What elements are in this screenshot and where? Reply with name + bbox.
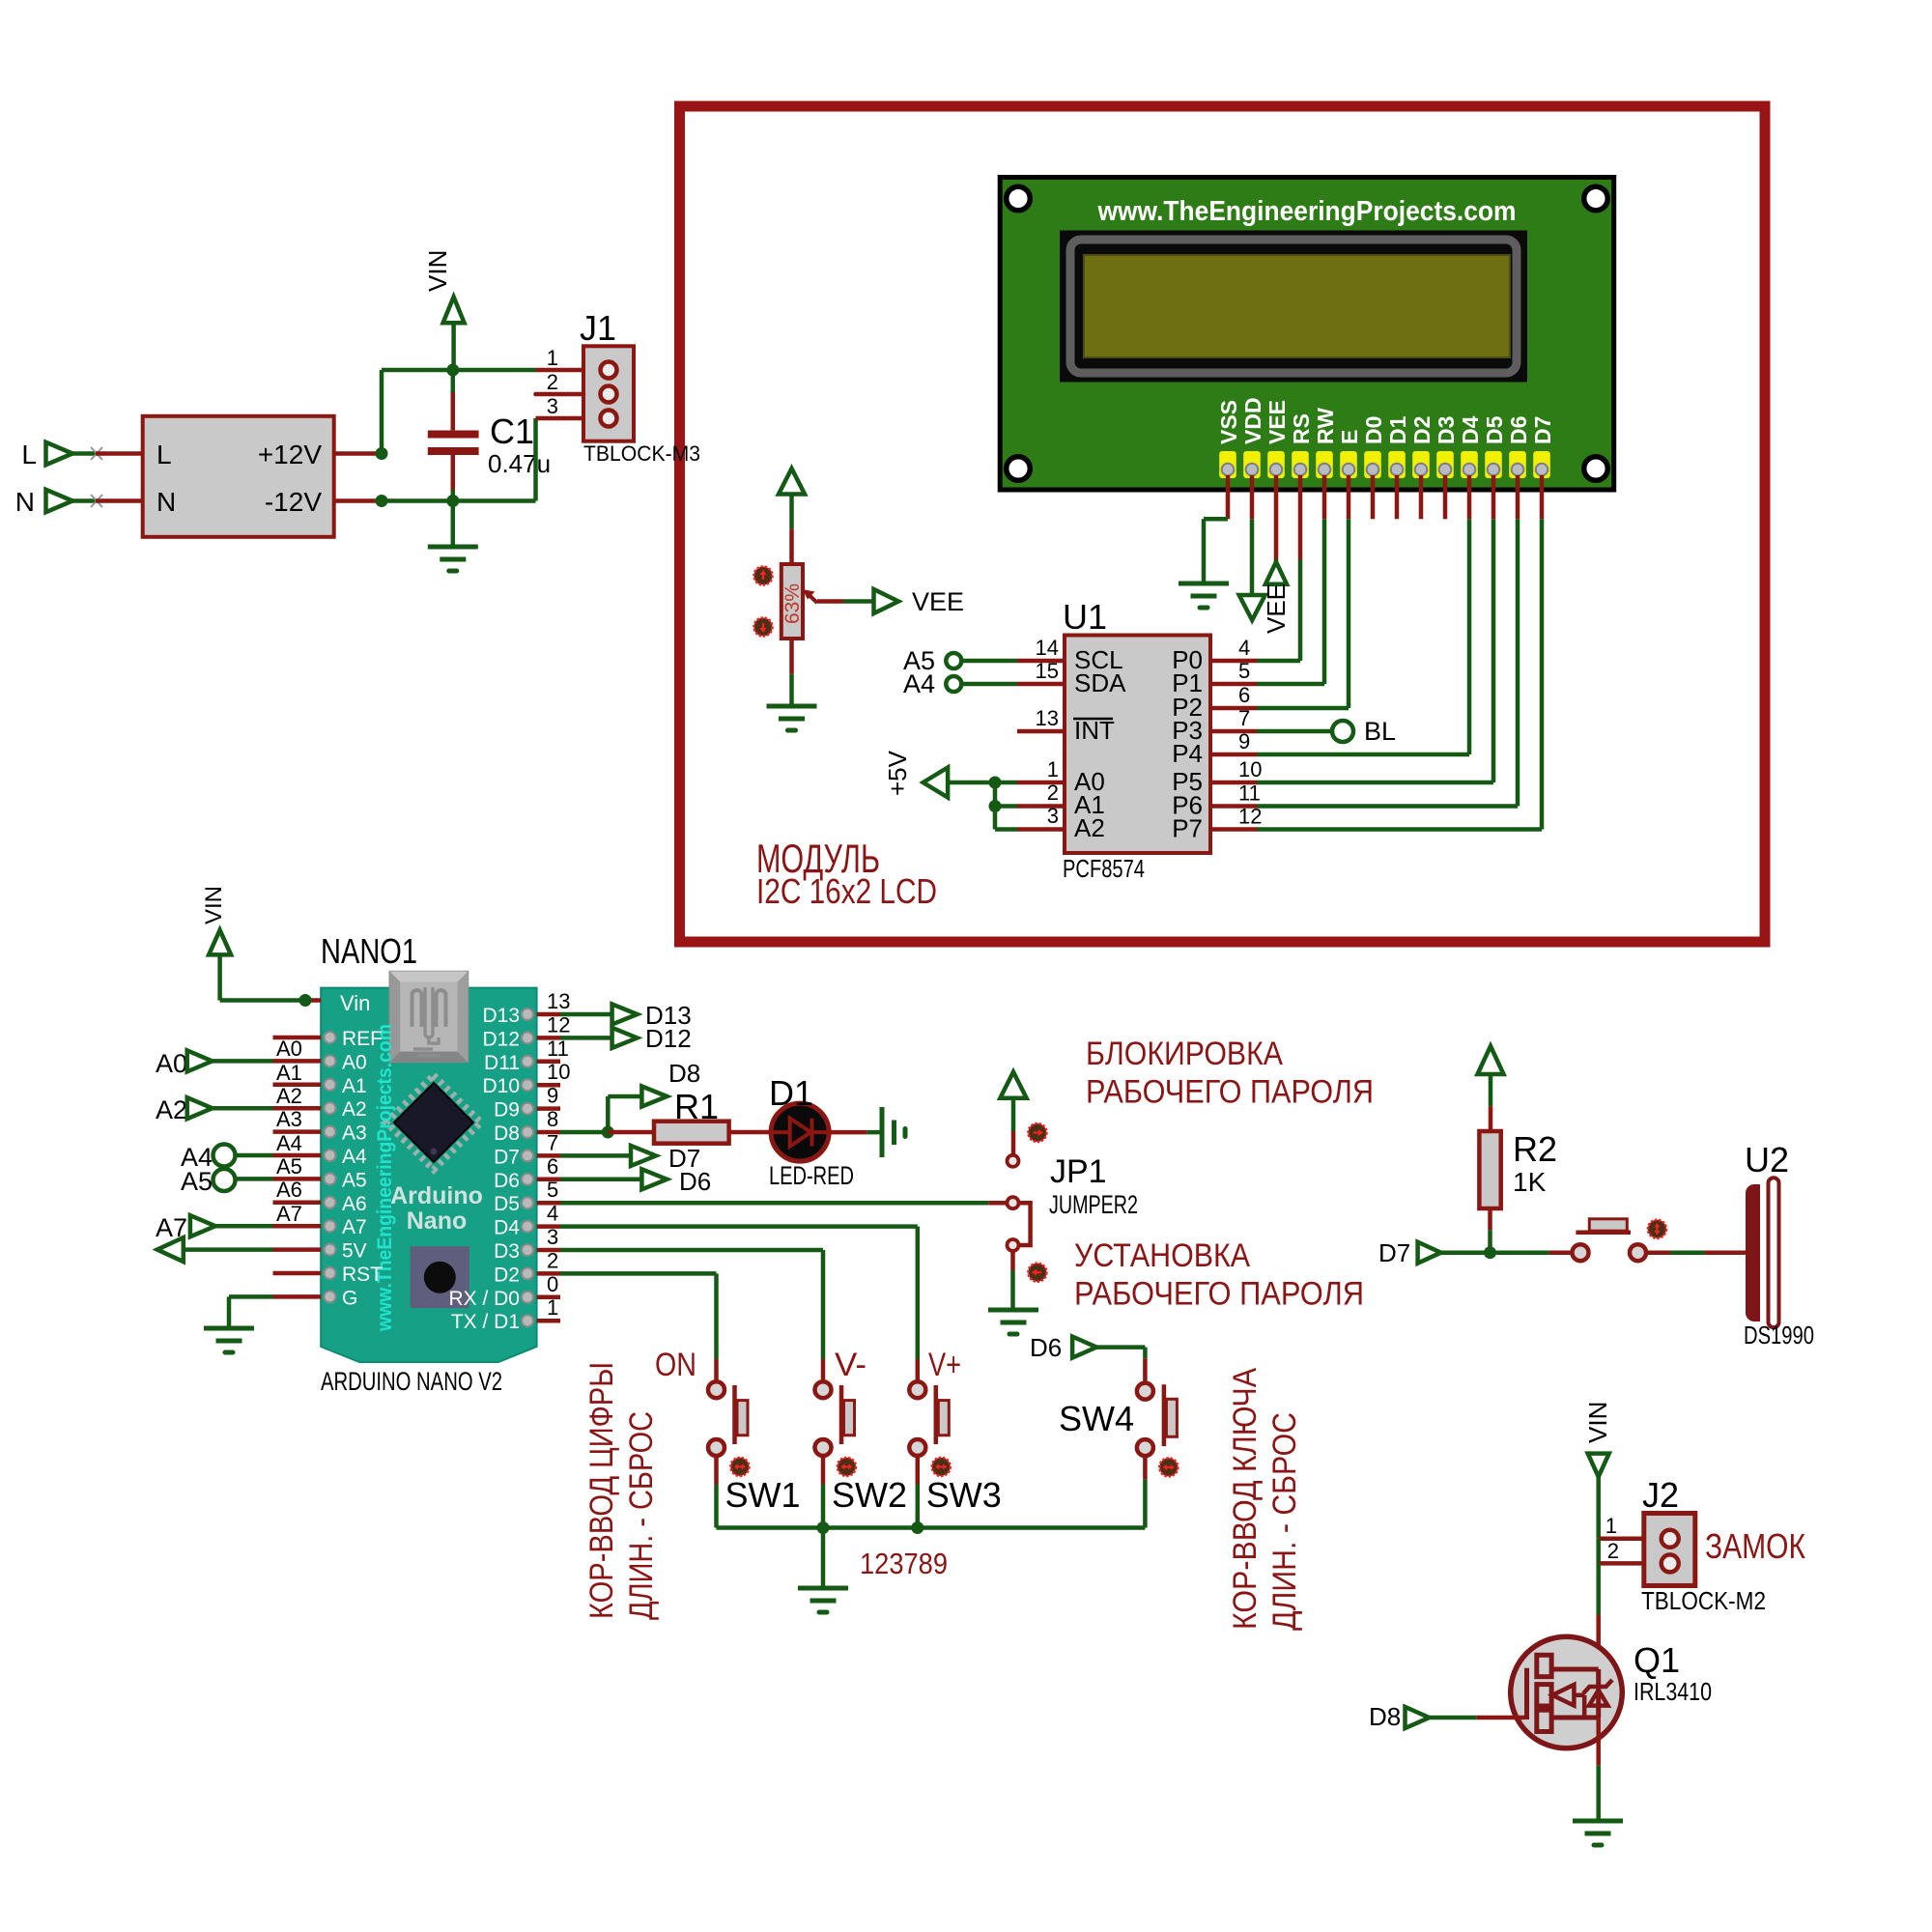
- svg-text:A5: A5: [276, 1154, 302, 1179]
- svg-text:1: 1: [547, 1295, 558, 1320]
- caption blocking line2: [1086, 1074, 1374, 1111]
- svg-text:D7: D7: [1530, 416, 1555, 444]
- LCD pad D1: [1388, 451, 1406, 478]
- svg-text:N: N: [15, 487, 35, 517]
- pot value 63%: [781, 583, 804, 624]
- svg-text:SW1: SW1: [725, 1475, 801, 1515]
- nano pin A3: [273, 1122, 367, 1145]
- svg-text:U2: U2: [1745, 1140, 1789, 1179]
- svg-text:J1: J1: [580, 308, 616, 348]
- ground pot: [767, 706, 817, 730]
- svg-text:Vin: Vin: [340, 991, 370, 1015]
- svg-text:JUMPER2: JUMPER2: [1049, 1190, 1138, 1219]
- terminal D6 key: [1030, 1333, 1096, 1362]
- Q1 label: [1634, 1640, 1680, 1680]
- svg-text:V-: V-: [835, 1347, 867, 1383]
- VEE label: [912, 587, 964, 616]
- switch SW1 interactive: [730, 1458, 749, 1476]
- wire P1 to RW: [1257, 682, 1324, 687]
- wire down to A2: [995, 807, 1017, 830]
- svg-text:5V: 5V: [342, 1240, 367, 1263]
- wire J2 to Q1 drain: [1596, 1563, 1601, 1669]
- svg-text:D2: D2: [1409, 416, 1435, 444]
- wire C1 to ground: [451, 501, 456, 548]
- svg-text:9: 9: [547, 1084, 558, 1108]
- svg-text:D4: D4: [1458, 415, 1483, 444]
- LCD pad VEE: [1267, 451, 1285, 478]
- svg-text:VEE: VEE: [1264, 400, 1290, 444]
- J1 type label TBLOCK-M3: [583, 441, 700, 466]
- svg-text:JP1: JP1: [1050, 1153, 1107, 1190]
- svg-text:A2: A2: [276, 1084, 302, 1108]
- switch SW3 label: [926, 1475, 1002, 1515]
- nano VIN power arrow: [201, 886, 305, 1001]
- node R2 D7: [1484, 1246, 1496, 1259]
- svg-text:www.TheEngineeringProjects.com: www.TheEngineeringProjects.com: [1097, 196, 1517, 227]
- LCD pad RW: [1316, 451, 1333, 478]
- svg-text:TBLOCK-M2: TBLOCK-M2: [1641, 1586, 1766, 1615]
- wire D2 to SW1: [560, 1273, 717, 1359]
- wire D2 stub: [1419, 475, 1424, 519]
- wire button to U2: [1646, 1250, 1747, 1255]
- terminal D7 key: [1378, 1238, 1441, 1267]
- wire D8 net: [560, 1130, 608, 1135]
- resistor R2: [1479, 1131, 1500, 1208]
- U1 pin INT 13: [1017, 706, 1115, 745]
- switch SW2 top pin: [815, 1359, 832, 1398]
- wire N green: [72, 498, 96, 503]
- terminal N: [15, 487, 35, 517]
- svg-text:ARDUINO NANO V2: ARDUINO NANO V2: [321, 1367, 502, 1396]
- svg-text:VDD: VDD: [1240, 397, 1265, 444]
- svg-text:RST: RST: [342, 1264, 383, 1286]
- DS1990 label: [1744, 1321, 1814, 1350]
- wire -12V green: [382, 498, 536, 503]
- wire D0 stub: [1371, 475, 1376, 519]
- U1 pin P3 7: [1172, 706, 1257, 745]
- VIN label: [423, 250, 452, 292]
- svg-text:SW3: SW3: [926, 1475, 1002, 1515]
- J1 pin numbers: [547, 346, 558, 418]
- wire D7 junction: [1441, 1250, 1549, 1255]
- resistor R1: [654, 1122, 729, 1144]
- isp header: [411, 1246, 469, 1308]
- wire RW drop: [1322, 475, 1327, 684]
- switch SW4 interactive: [1159, 1458, 1178, 1476]
- nano pin D4: [494, 1202, 560, 1239]
- svg-text:9: 9: [1238, 729, 1250, 753]
- svg-text:I2C 16x2 LCD: I2C 16x2 LCD: [756, 871, 937, 911]
- touch button actuator: [1576, 1219, 1631, 1233]
- wire to J2 pin2: [1599, 1539, 1662, 1564]
- svg-text:2: 2: [1607, 1539, 1619, 1563]
- svg-text:N: N: [156, 487, 176, 517]
- svg-text:VSS: VSS: [1216, 400, 1241, 444]
- svg-text:TX / D1: TX / D1: [451, 1311, 520, 1333]
- switch SW1 label: [725, 1475, 801, 1515]
- svg-text:1: 1: [1047, 757, 1059, 781]
- svg-text:D5: D5: [494, 1193, 520, 1215]
- svg-text:DS1990: DS1990: [1744, 1321, 1814, 1350]
- wire A5 to SCL: [961, 659, 1017, 664]
- svg-text:D3: D3: [494, 1240, 520, 1263]
- svg-text:A6: A6: [276, 1178, 302, 1202]
- wire to touch button: [1548, 1250, 1573, 1255]
- nano pin D6: [494, 1154, 560, 1192]
- nano pin A1: [273, 1075, 367, 1097]
- svg-text:NANO1: NANO1: [321, 931, 417, 971]
- wire R1 to D1: [729, 1130, 773, 1135]
- svg-text:УСТАНОВКА: УСТАНОВКА: [1074, 1237, 1250, 1274]
- wire G to ground: [229, 1296, 273, 1328]
- touch button left pin: [1573, 1244, 1589, 1261]
- atmega chip: [386, 1075, 481, 1170]
- C1 label: [488, 412, 551, 478]
- module border box: [680, 106, 1766, 942]
- R2 label: [1513, 1129, 1557, 1197]
- svg-text:U1: U1: [1063, 597, 1107, 637]
- wire +5V to A0: [948, 781, 1017, 785]
- node +12V: [376, 447, 388, 460]
- svg-text:5: 5: [547, 1178, 558, 1202]
- ground JP1: [988, 1310, 1038, 1334]
- svg-text:A5: A5: [342, 1169, 367, 1191]
- label V+: [928, 1347, 961, 1383]
- PCB title text: [1097, 196, 1517, 227]
- TBLOCK-M2 label: [1641, 1586, 1766, 1615]
- no-connect x N: [91, 495, 102, 507]
- svg-text:D5: D5: [1482, 415, 1507, 444]
- ARDUINO NANO V2 label: [321, 1367, 502, 1396]
- switch SW2 actuator: [841, 1385, 855, 1444]
- svg-text:ЗАМОК: ЗАМОК: [1705, 1526, 1805, 1566]
- J1 pin2 stub: [536, 392, 584, 397]
- LCD pad label VSS: [1216, 400, 1241, 444]
- terminal A0: [156, 1037, 302, 1078]
- connector J2: [1644, 1514, 1695, 1586]
- LCD pad E: [1340, 451, 1357, 478]
- pot wiper arrow: [803, 589, 818, 603]
- SW4 label: [1059, 1399, 1134, 1438]
- caption digits col2: [623, 1411, 660, 1620]
- jumper JP1 pin3: [1008, 1239, 1019, 1251]
- input arrow N: [46, 490, 73, 512]
- terminal D12: [560, 1024, 692, 1053]
- nano pin TX / D1: [451, 1295, 560, 1333]
- wire D4 to SW3: [560, 1227, 918, 1359]
- LCD pad VSS: [1219, 451, 1236, 478]
- wire node to J1 pin1: [453, 368, 583, 373]
- wire P2 to E: [1257, 706, 1349, 711]
- JUMPER2 label: [1049, 1190, 1138, 1219]
- svg-text:1: 1: [547, 346, 558, 370]
- node -12V a: [376, 495, 388, 507]
- wire D8 to R1: [608, 1130, 654, 1135]
- wire down to A1: [995, 782, 1017, 807]
- LCD pad D3: [1436, 451, 1454, 478]
- svg-text:D6: D6: [1030, 1333, 1062, 1362]
- node bus SW2: [817, 1521, 830, 1534]
- nano pin RX / D0: [448, 1272, 560, 1310]
- LCD pad D4: [1461, 451, 1478, 478]
- switch SW2 interactive: [838, 1458, 856, 1476]
- svg-text:VIN: VIN: [201, 886, 227, 924]
- svg-text:13: 13: [1036, 706, 1059, 730]
- wire pot bottom: [789, 639, 794, 706]
- svg-text:D7: D7: [1378, 1238, 1410, 1267]
- svg-text:7: 7: [1238, 706, 1250, 730]
- svg-text:RS: RS: [1289, 413, 1314, 444]
- svg-text:КОР-ВВОД КЛЮЧА: КОР-ВВОД КЛЮЧА: [1227, 1368, 1264, 1630]
- pot interactive up: [754, 567, 773, 585]
- PCB hole top-right: [1584, 186, 1608, 211]
- caption digits col1: [583, 1362, 620, 1619]
- terminal L: [21, 440, 37, 469]
- svg-text:A5: A5: [181, 1167, 213, 1196]
- wire switch bus: [717, 1525, 1146, 1530]
- svg-text:13: 13: [547, 989, 570, 1013]
- svg-text:VEE: VEE: [1262, 583, 1291, 634]
- svg-text:A2: A2: [342, 1098, 367, 1121]
- svg-text:P4: P4: [1172, 739, 1203, 768]
- +5V terminal arrow: [923, 768, 949, 798]
- wire to J1 pin3: [536, 418, 584, 501]
- node -12V b: [446, 495, 459, 507]
- LCD pad D7: [1533, 451, 1550, 478]
- branch to D8 terminal: [608, 1059, 700, 1132]
- usb connector: [389, 972, 468, 1063]
- svg-text:A2: A2: [1074, 813, 1105, 842]
- svg-text:L: L: [156, 440, 172, 469]
- LCD pad label D3: [1434, 416, 1459, 444]
- U1 pin P6 11: [1172, 781, 1261, 820]
- svg-text:4: 4: [547, 1202, 558, 1226]
- VIN power arrow: [443, 297, 465, 370]
- potentiometer RV 63%: [781, 564, 803, 639]
- svg-text:A2: A2: [156, 1095, 187, 1124]
- svg-text:3: 3: [547, 394, 558, 418]
- switch SW3 bottom pin: [909, 1439, 925, 1528]
- wire D6 to SW4: [1096, 1348, 1145, 1383]
- terminal A5 circle: [181, 1154, 302, 1196]
- svg-text:4: 4: [1238, 636, 1250, 660]
- module caption МОДУЛЬ: [756, 836, 880, 881]
- label ZAMOK: [1705, 1526, 1805, 1566]
- nano pin RST: [273, 1264, 384, 1286]
- svg-text:6: 6: [1238, 683, 1250, 707]
- svg-text:D3: D3: [1434, 416, 1459, 444]
- wire D1 to ground: [829, 1130, 882, 1135]
- svg-text:Q1: Q1: [1634, 1640, 1680, 1680]
- wire D3 stub: [1443, 475, 1448, 519]
- LCD pad label D1: [1385, 415, 1410, 444]
- no-connect x L: [91, 447, 102, 460]
- JP1 power arrow: [1000, 1072, 1026, 1131]
- wire VSS drop: [1204, 475, 1228, 583]
- svg-text:A1: A1: [276, 1061, 302, 1085]
- U1 pin P0 4: [1172, 636, 1257, 674]
- nano pin A4: [273, 1146, 368, 1168]
- wire to JP1 pin1: [1011, 1131, 1016, 1155]
- ground switches: [798, 1588, 848, 1612]
- PCB hole bottom-right: [1584, 457, 1608, 481]
- svg-text:BL: BL: [1364, 717, 1396, 746]
- R2 power arrow: [1478, 1046, 1504, 1131]
- svg-text:5: 5: [1238, 659, 1250, 683]
- PCB hole bottom-left: [1007, 457, 1031, 481]
- svg-text:ДЛИН. - СБРОС: ДЛИН. - СБРОС: [623, 1411, 660, 1620]
- node A0: [989, 777, 1002, 789]
- svg-text:РАБОЧЕГО ПАРОЛЯ: РАБОЧЕГО ПАРОЛЯ: [1086, 1074, 1374, 1111]
- label V-: [835, 1347, 867, 1383]
- switch SW4 top pin: [1137, 1383, 1153, 1400]
- svg-text:P7: P7: [1172, 814, 1203, 843]
- terminal 5V arrow: [157, 1237, 273, 1262]
- svg-text:D1: D1: [769, 1073, 813, 1113]
- wire P3 to BL: [1257, 729, 1332, 734]
- svg-text:SW4: SW4: [1059, 1399, 1134, 1438]
- LCD pad label D7: [1530, 416, 1555, 444]
- U1 pin A2 3: [1017, 804, 1105, 842]
- pot VEE power arrow: [779, 469, 805, 528]
- jumper JP1 pin2: [1008, 1197, 1019, 1208]
- svg-text:123789: 123789: [860, 1547, 948, 1580]
- svg-text:D11: D11: [484, 1052, 520, 1074]
- input arrow L: [46, 442, 73, 465]
- terminal D6 nano: [560, 1167, 711, 1196]
- svg-text:D7: D7: [494, 1146, 520, 1168]
- svg-text:10: 10: [547, 1060, 570, 1084]
- wire R2 down: [1488, 1208, 1492, 1253]
- VEE up arrow terminal: [1265, 562, 1287, 584]
- caption set line2: [1074, 1276, 1364, 1313]
- U2 label: [1745, 1140, 1789, 1179]
- svg-text:INT: INT: [1074, 716, 1115, 745]
- nano pin D13: [482, 989, 570, 1027]
- nano pin D9: [494, 1084, 560, 1122]
- svg-text:REF: REF: [342, 1028, 383, 1050]
- switch SW4 actuator: [1164, 1384, 1178, 1446]
- svg-text:A0: A0: [276, 1037, 302, 1061]
- VIN label key: [1583, 1402, 1612, 1443]
- led D1 LED-RED: [771, 1103, 829, 1161]
- code label 123789: [860, 1547, 948, 1580]
- wire D7 drop: [1540, 475, 1545, 830]
- svg-text:10: 10: [1238, 757, 1262, 781]
- svg-text:КОР-ВВОД ЦИФРЫ: КОР-ВВОД ЦИФРЫ: [583, 1362, 620, 1619]
- wire P5 to D5: [1257, 781, 1493, 785]
- svg-text:D2: D2: [494, 1264, 520, 1286]
- svg-text:3: 3: [547, 1225, 558, 1249]
- switch SW3 actuator: [936, 1385, 950, 1444]
- svg-text:2: 2: [547, 370, 558, 394]
- svg-text:D8: D8: [1369, 1702, 1401, 1731]
- switch SW2 label: [832, 1475, 907, 1515]
- svg-text:7: 7: [547, 1130, 558, 1154]
- LCD pad label VEE: [1264, 400, 1290, 444]
- touch button interactive: [1648, 1220, 1666, 1238]
- LCD PCB board: [1000, 178, 1614, 491]
- transistor Q1 body: [1511, 1636, 1623, 1748]
- nano pin A0: [273, 1051, 367, 1073]
- svg-text:D13: D13: [482, 1005, 520, 1027]
- U1 type PCF8574: [1063, 854, 1145, 883]
- svg-text:A4: A4: [903, 669, 935, 698]
- jumper JP1 pin1: [1008, 1155, 1019, 1167]
- wire JP1 pin3 to ground: [1010, 1251, 1015, 1310]
- wire D4 drop: [1467, 475, 1472, 754]
- D1 label: [769, 1073, 813, 1113]
- nano pin A2: [273, 1098, 367, 1121]
- BL terminal circle: [1332, 721, 1353, 742]
- U1 pin A0 1: [1017, 757, 1105, 796]
- arduino nano silk text: [390, 1182, 483, 1235]
- node Vin: [299, 994, 312, 1007]
- svg-text:SW2: SW2: [832, 1475, 907, 1515]
- LCD pad D0: [1364, 451, 1381, 478]
- LCD pad D5: [1485, 451, 1502, 478]
- R1 label: [674, 1087, 719, 1126]
- svg-text:D12: D12: [645, 1024, 692, 1053]
- wire -12V red: [334, 498, 382, 503]
- LCD pad label D6: [1506, 416, 1531, 444]
- svg-text:IRL3410: IRL3410: [1634, 1677, 1712, 1706]
- svg-text:A3: A3: [342, 1122, 367, 1145]
- U1 pin A1 2: [1017, 781, 1105, 819]
- svg-text:D8: D8: [668, 1059, 700, 1088]
- svg-text:A0: A0: [342, 1051, 367, 1073]
- svg-text:LED-RED: LED-RED: [769, 1161, 854, 1190]
- svg-text:RW: RW: [1313, 408, 1338, 444]
- svg-text:A0: A0: [156, 1049, 187, 1078]
- wire Q1 source to ground: [1596, 1718, 1601, 1821]
- svg-text:БЛОКИРОВКА: БЛОКИРОВКА: [1086, 1036, 1283, 1072]
- switch SW4 bottom pin: [1137, 1439, 1153, 1527]
- U1 pin P7 12: [1172, 805, 1262, 843]
- JP1 link: [1019, 1203, 1031, 1245]
- wire bus to ground: [821, 1528, 826, 1589]
- terminal D8 gate: [1369, 1702, 1430, 1731]
- svg-text:V+: V+: [928, 1347, 961, 1383]
- pot interactive down: [754, 618, 773, 637]
- arduino nano board NANO1: [321, 988, 536, 1362]
- switch SW1 top pin: [708, 1359, 724, 1398]
- label ON: [655, 1347, 696, 1383]
- svg-text:+5V: +5V: [883, 750, 912, 796]
- terminal A2: [156, 1061, 302, 1124]
- svg-text:R2: R2: [1513, 1129, 1557, 1169]
- svg-text:2: 2: [547, 1248, 558, 1272]
- Q1 mosfet symbol: [1527, 1655, 1613, 1731]
- svg-text:D10: D10: [482, 1075, 520, 1097]
- LCD pad label D2: [1409, 416, 1435, 444]
- svg-text:A7: A7: [276, 1202, 302, 1226]
- U1 pin SCL 14: [1017, 636, 1123, 674]
- wire D5 to JP1: [560, 1201, 1007, 1206]
- LCD pad label VDD: [1240, 397, 1265, 444]
- module caption I2C 16x2 LCD: [756, 871, 937, 911]
- nano pin REF: [273, 1028, 384, 1050]
- svg-text:VEE: VEE: [912, 587, 964, 616]
- wire L green: [72, 451, 96, 456]
- terminal D7 nano: [560, 1144, 700, 1173]
- nano pin D10: [482, 1060, 570, 1097]
- svg-text:VIN: VIN: [423, 250, 452, 292]
- U1 pin P5 10: [1172, 757, 1262, 796]
- capacitor C1: [428, 370, 479, 501]
- wire P7 to D7: [1257, 827, 1542, 832]
- wire D6 drop: [1516, 475, 1520, 807]
